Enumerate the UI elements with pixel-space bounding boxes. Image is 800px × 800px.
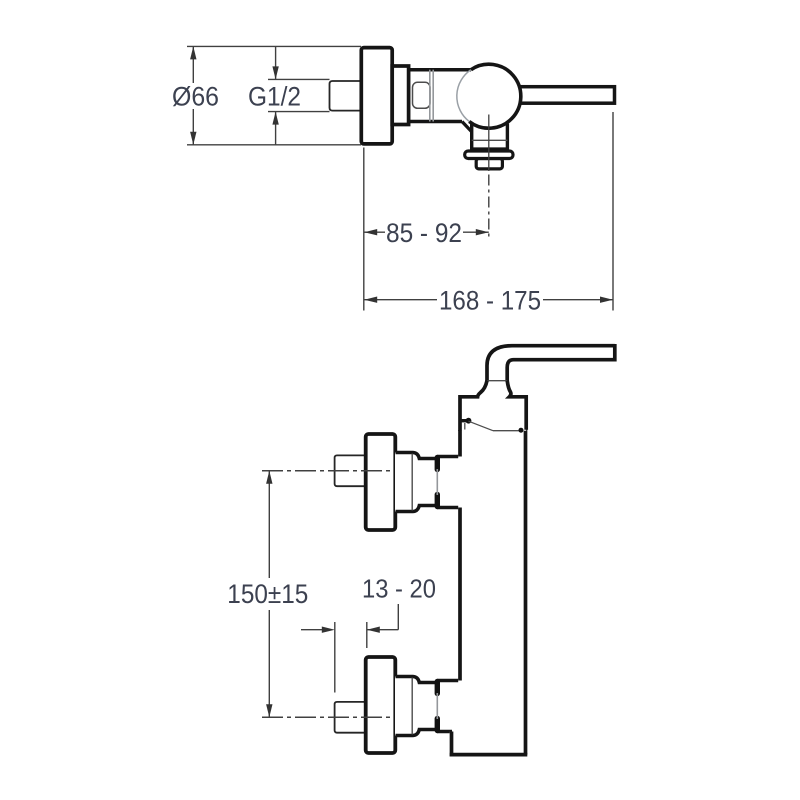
- dimension line Ø66: [192, 46, 194, 144]
- upper union nut bar bottom: [435, 495, 440, 507]
- lower wall pipe stub: [335, 702, 364, 733]
- bell seam small vertical: [464, 423, 466, 430]
- extension line G1/2 lower: [268, 111, 330, 113]
- extension line G1/2 upper: [268, 78, 330, 80]
- outlet collar: [465, 151, 513, 159]
- arrow down Ø66: [190, 132, 196, 145]
- svg-text:13 - 20: 13 - 20: [362, 573, 436, 603]
- extension line bottom (Ø66): [187, 144, 361, 146]
- upper union neck top contour: [396, 453, 461, 459]
- bell seam dot right: [519, 428, 524, 433]
- leader 13-20 horizontal right segment: [367, 629, 398, 631]
- dimension 13-20 left segment: [301, 629, 322, 631]
- bell left flare: [460, 381, 487, 432]
- arrow up to pipe bottom: [272, 112, 278, 125]
- body left edge middle: [458, 508, 462, 681]
- wall flange (top view): [361, 48, 392, 144]
- lower union joint gray line: [436, 693, 438, 719]
- bell seam dot left: [466, 418, 472, 424]
- arrow right 85-92: [476, 229, 489, 235]
- body bottom-left edge: [450, 732, 454, 757]
- arrow down to pipe top: [272, 66, 278, 79]
- body cylinder top line: [409, 68, 472, 72]
- upper centerline dashed: [262, 470, 390, 472]
- dimension 150±15 line: [268, 471, 270, 718]
- arrow right 13-20: [322, 627, 335, 633]
- upper union neck fill: [395, 453, 461, 512]
- upper union flange: [366, 434, 396, 530]
- body cylinder bottom line: [409, 120, 463, 124]
- upper wall pipe stub: [335, 455, 364, 486]
- extension line top (Ø66): [187, 45, 361, 47]
- body left edge upper: [458, 430, 462, 457]
- escutcheon shoulder: [392, 66, 408, 125]
- lower union nut bar top: [435, 682, 440, 694]
- handle bar outer top edge: [487, 346, 615, 381]
- outlet cap: [476, 159, 502, 169]
- arrow left 13-20: [367, 627, 380, 633]
- outlet neck left side: [470, 123, 473, 150]
- handle bar inner bottom edge: [507, 360, 615, 381]
- upper union neck bottom contour: [396, 506, 461, 512]
- lower union neck bottom contour: [396, 730, 453, 736]
- outlet center line dashed: [488, 175, 490, 241]
- body right edge: [524, 429, 528, 755]
- handle bar right end: [613, 344, 617, 362]
- outlet center line solid: [488, 115, 490, 172]
- extension line wall face: [334, 622, 336, 693]
- leader 13-20 vertical: [397, 604, 399, 630]
- valve sphere body: [457, 64, 521, 128]
- outlet neck right side: [506, 124, 509, 151]
- lower union neck top contour: [396, 677, 461, 683]
- sphere left thin arc: [457, 70, 471, 122]
- upper union joint gray line: [436, 469, 438, 495]
- joint gray line 2: [432, 70, 434, 122]
- upper union nut bar top: [435, 458, 440, 470]
- svg-text:G1/2: G1/2: [248, 82, 301, 112]
- mixer body fill: [450, 431, 528, 757]
- lower union neck fill: [395, 677, 461, 736]
- svg-text:85 - 92: 85 - 92: [386, 218, 462, 248]
- lower union flange: [366, 657, 396, 753]
- extension line right (handle end): [612, 112, 614, 311]
- bell right flare: [507, 381, 526, 430]
- outlet neck bottom line: [470, 147, 509, 150]
- joint gray line 1: [429, 70, 431, 122]
- arrow left 85-92: [364, 229, 377, 235]
- bell seam diagonal: [469, 421, 494, 431]
- arrow up 150±15: [266, 471, 272, 484]
- handle bar (top view): [500, 87, 615, 104]
- diagonal to outlet: [462, 122, 472, 132]
- dimension 168-175 line: [364, 299, 613, 301]
- arrow down 150±15: [266, 704, 272, 717]
- upper union inner face line: [411, 454, 413, 511]
- lower union inner face line: [411, 678, 413, 735]
- cartridge detail rounded rect: [413, 82, 431, 108]
- bell seam nub: [460, 419, 467, 422]
- svg-text:168 - 175: 168 - 175: [439, 285, 541, 315]
- handle neck seam: [487, 380, 507, 382]
- arrow up Ø66: [190, 46, 196, 59]
- wall pipe stub G1/2 (top view): [330, 81, 361, 111]
- lower centerline dashed: [262, 716, 390, 718]
- extension line left (wall face, below flange): [363, 148, 365, 311]
- bell seam horizontal: [493, 430, 521, 432]
- svg-text:150±15: 150±15: [227, 579, 308, 609]
- dimension line G1/2: [275, 46, 277, 144]
- extension line flange face: [366, 622, 368, 648]
- handle and bell fill: [460, 346, 615, 431]
- dimension 85-92 line: [364, 231, 489, 233]
- arrow left 168-175: [364, 297, 377, 303]
- body bottom edge: [450, 753, 528, 757]
- arrow right 168-175: [600, 297, 613, 303]
- lower union nut bar bottom: [435, 719, 440, 731]
- svg-text:Ø66: Ø66: [172, 82, 219, 112]
- outlet neck detail line: [472, 139, 508, 141]
